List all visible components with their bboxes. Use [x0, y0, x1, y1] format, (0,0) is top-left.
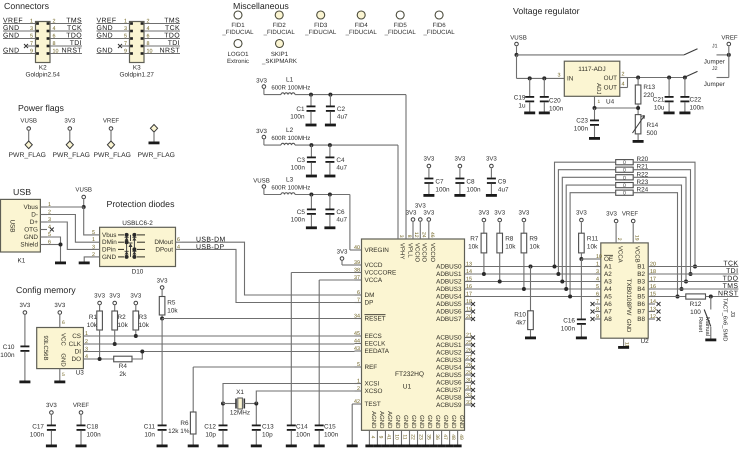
junction C6: [328, 193, 332, 197]
svg-text:2: 2: [622, 72, 625, 78]
ground bar K1: [55, 262, 66, 265]
svg-text:41: 41: [386, 434, 392, 440]
svg-text:3: 3: [558, 73, 561, 79]
svg-text:C13: C13: [262, 424, 274, 431]
wire OUT rail: [628, 77, 685, 79]
svg-text:FT232HQ: FT232HQ: [395, 371, 424, 378]
svg-text:FID4: FID4: [355, 22, 369, 29]
U1 right pin 14 ADBUS1: [465, 273, 472, 275]
wire VUSB top rail to J1: [517, 54, 685, 56]
wire joining OUT pins: [627, 78, 629, 88]
svg-text:VCCB: VCCB: [633, 246, 640, 263]
wire TEST pin to ground: [352, 403, 354, 405]
svg-text:TDI: TDI: [70, 40, 82, 47]
svg-text:13: 13: [466, 261, 472, 267]
U1 right pin 17 ADBUS4: [465, 296, 472, 298]
svg-text:Extronic: Extronic: [227, 58, 249, 65]
svg-text:TDO: TDO: [66, 32, 82, 39]
svg-text:RESET: RESET: [365, 316, 386, 323]
svg-text:U1: U1: [403, 384, 412, 391]
svg-text:4: 4: [85, 354, 88, 360]
fiducial FID6: [435, 11, 443, 19]
junction Shield/GND: [59, 243, 63, 247]
svg-text:100n: 100n: [291, 165, 306, 172]
svg-text:TDO: TDO: [723, 275, 739, 282]
fiducial FID2: [275, 11, 283, 19]
svg-text:ACBUS1: ACBUS1: [436, 342, 462, 349]
svg-text:31: 31: [466, 385, 472, 391]
svg-text:NRST: NRST: [62, 47, 83, 54]
PWR_FLAG diamond (gnd flag): [150, 125, 157, 133]
svg-text:_FIDUCIAL: _FIDUCIAL: [304, 29, 337, 36]
resistor R24 0R link: [616, 190, 634, 195]
svg-text:25: 25: [466, 340, 472, 346]
svg-text:5: 5: [124, 33, 127, 39]
svg-text:VUSB: VUSB: [20, 118, 37, 125]
svg-text:ADJ: ADJ: [595, 83, 602, 94]
U1 bottom pin 48 GND: [449, 430, 451, 444]
U1 right pin 33 ACBUS9: [465, 404, 472, 406]
junction R1-DO: [98, 357, 102, 361]
svg-text:100: 100: [690, 309, 701, 316]
junction C1: [309, 93, 313, 97]
U2 GND pin 11 to ground: [623, 338, 625, 346]
svg-text:0: 0: [623, 175, 626, 181]
U1 left pin 43 EEDATA: [355, 350, 362, 352]
svg-text:DMin: DMin: [102, 239, 117, 246]
wire K1 GND to ground: [47, 237, 61, 262]
capacitor C5 100n: [310, 195, 312, 209]
svg-text:TDI: TDI: [168, 40, 180, 47]
trimmer R14 500: [635, 115, 641, 134]
svg-text:VREGIN: VREGIN: [365, 247, 390, 254]
svg-text:FID6: FID6: [432, 22, 446, 29]
svg-text:17: 17: [466, 291, 472, 297]
svg-text:L1: L1: [286, 76, 294, 83]
jumper J1: [684, 49, 698, 55]
svg-text:TACT_6x6_SMD: TACT_6x6_SMD: [722, 298, 729, 341]
svg-text:100n: 100n: [30, 432, 45, 439]
capacitor C14 100n: [287, 425, 296, 427]
svg-text:A7: A7: [604, 309, 612, 316]
junction R9: [522, 287, 526, 291]
K2 pin 4 wire / net TCK: [50, 30, 82, 32]
wire bus ADBUS3/A4 row: [472, 288, 595, 290]
U1 right pin 13 ADBUS0: [465, 266, 472, 268]
svg-text:5: 5: [596, 284, 599, 290]
ferrite bead L1 600R 100MHz: [264, 94, 281, 96]
svg-text:_SKIPMARK: _SKIPMARK: [261, 58, 297, 65]
skip mark SKIP1: [276, 40, 284, 48]
svg-text:U2: U2: [641, 338, 650, 345]
wire VCCCORE to C14: [291, 272, 354, 274]
svg-text:TDO: TDO: [164, 32, 180, 39]
svg-text:35: 35: [426, 434, 432, 440]
svg-text:4u7: 4u7: [498, 187, 509, 194]
svg-text:3V3: 3V3: [54, 302, 65, 309]
svg-text:VCCA: VCCA: [365, 277, 383, 284]
svg-text:Vbus: Vbus: [24, 204, 38, 211]
svg-text:Config memory: Config memory: [16, 285, 76, 295]
junction R5-RESET: [160, 317, 164, 321]
svg-text:10: 10: [147, 48, 153, 54]
svg-text:B7: B7: [637, 309, 645, 316]
svg-text:C21: C21: [653, 97, 665, 104]
svg-text:3: 3: [85, 347, 88, 353]
svg-text:ACBUS5: ACBUS5: [436, 372, 462, 379]
wire R21 right to B-side net: [633, 170, 690, 274]
U1 bottom pin 9 AGND: [376, 430, 378, 444]
junction C19: [528, 76, 532, 80]
svg-text:500: 500: [647, 130, 658, 137]
svg-text:R1: R1: [89, 314, 98, 321]
svg-text:100n: 100n: [561, 326, 576, 333]
svg-text:Miscellaneous: Miscellaneous: [233, 1, 289, 11]
svg-text:LOGO1: LOGO1: [228, 51, 250, 58]
svg-text:3V3: 3V3: [423, 156, 434, 163]
svg-text:ADBUS4: ADBUS4: [436, 294, 462, 301]
svg-text:3V3: 3V3: [478, 210, 489, 217]
U1 top pin 8 VPLL: [405, 232, 407, 239]
svg-text:93LC56B: 93LC56B: [42, 335, 49, 360]
svg-text:C9: C9: [498, 179, 507, 186]
wire XCSO net: [256, 391, 354, 404]
svg-text:3V3: 3V3: [94, 293, 105, 300]
svg-text:1u: 1u: [518, 103, 526, 110]
svg-text:TXB0108PW: TXB0108PW: [625, 279, 632, 316]
svg-text:AGND: AGND: [370, 411, 377, 429]
svg-text:DO: DO: [71, 356, 81, 363]
capacitor C17 100n: [50, 415, 52, 425]
svg-text:10k: 10k: [505, 244, 516, 251]
wire L2 rail: [295, 144, 398, 146]
svg-text:VUSB: VUSB: [253, 178, 270, 185]
wire R24 left to A-side net: [570, 193, 616, 297]
svg-text:3V3: 3V3: [486, 156, 497, 163]
svg-text:DM: DM: [365, 292, 375, 299]
wire VUSB down to IN rail: [516, 55, 518, 79]
power symbol VREF: [109, 127, 113, 131]
junction NRST/J3: [709, 295, 713, 299]
svg-text:_FIDUCIAL: _FIDUCIAL: [263, 29, 296, 36]
svg-text:3V3: 3V3: [337, 249, 348, 256]
svg-text:600R 100MHz: 600R 100MHz: [271, 84, 310, 91]
svg-text:NRST: NRST: [718, 290, 739, 297]
svg-text:GND: GND: [59, 353, 66, 367]
connector K1 body: [1, 199, 41, 252]
svg-text:R8: R8: [505, 236, 514, 243]
junction ADJ/R13/R14: [636, 106, 640, 110]
wire REF net U1 to R6: [193, 366, 354, 368]
svg-text:K3: K3: [133, 65, 141, 72]
svg-text:TMS: TMS: [164, 17, 180, 24]
svg-text:XCSO: XCSO: [365, 388, 383, 395]
svg-text:GND: GND: [625, 319, 632, 333]
svg-text:B8: B8: [637, 316, 645, 323]
svg-text:6: 6: [177, 237, 180, 243]
svg-text:A2: A2: [604, 271, 612, 278]
svg-text:J3: J3: [729, 311, 736, 317]
capacitor C22 100n: [684, 78, 686, 97]
svg-text:VREF: VREF: [721, 35, 738, 42]
svg-text:4: 4: [53, 26, 56, 32]
U1 right pin 25 ACBUS1: [465, 344, 472, 346]
U1 left pin 6 DM: [355, 294, 362, 296]
resistor R21 0R link: [616, 167, 634, 172]
crystal X1 12MHz: [223, 403, 236, 405]
svg-text:29: 29: [466, 370, 472, 376]
svg-text:SKIP1: SKIP1: [271, 51, 289, 58]
svg-text:VCCCORE: VCCCORE: [365, 270, 397, 277]
svg-text:DPin: DPin: [102, 246, 116, 253]
svg-text:3V3: 3V3: [423, 210, 434, 217]
junction Vbus/VUSB: [82, 205, 86, 209]
svg-text:ACBUS8: ACBUS8: [436, 395, 462, 402]
capacitor C19 1u: [529, 78, 531, 96]
junction C5: [309, 193, 313, 197]
svg-text:4: 4: [177, 244, 180, 250]
svg-text:GND: GND: [458, 415, 465, 429]
wire IN rail: [517, 77, 565, 79]
svg-text:5: 5: [92, 230, 95, 236]
svg-text:3V3: 3V3: [518, 210, 529, 217]
wire K1 Shield to ground net: [47, 244, 61, 246]
svg-text:4u7: 4u7: [337, 114, 348, 121]
U1 left pin 40 VREGIN: [355, 249, 362, 251]
svg-text:TMS: TMS: [723, 283, 739, 290]
svg-text:0: 0: [623, 168, 626, 174]
svg-text:ACBUS9: ACBUS9: [436, 402, 462, 409]
U1 left pin 38 VCCCORE: [355, 272, 362, 274]
wire USB-DP from D10 to U1 DP: [182, 249, 355, 302]
K3 pin 2 wire / net TMS: [144, 23, 180, 25]
svg-text:Shield: Shield: [20, 242, 38, 249]
svg-text:GND: GND: [442, 415, 449, 429]
svg-text:GND: GND: [434, 415, 441, 429]
U1 right pin 26 ACBUS2: [465, 352, 472, 354]
svg-text:4: 4: [596, 277, 599, 283]
junction R2-CLK: [113, 342, 117, 346]
svg-text:10p: 10p: [262, 432, 273, 439]
svg-text:19: 19: [633, 235, 639, 241]
svg-text:GND: GND: [3, 47, 20, 54]
U1 top pin 46 VCCIO: [428, 232, 430, 239]
svg-text:C3: C3: [297, 157, 306, 164]
wire D+ K1 to D10 DPin: [47, 222, 94, 249]
svg-text:7: 7: [357, 297, 360, 303]
capacitor C12 10p: [219, 425, 228, 427]
svg-text:30: 30: [466, 377, 472, 383]
svg-text:5: 5: [357, 362, 360, 368]
junction R3-CS: [134, 334, 138, 338]
svg-text:12k 1%: 12k 1%: [168, 428, 190, 435]
svg-text:20: 20: [466, 314, 472, 320]
svg-text:18: 18: [466, 299, 472, 305]
svg-text:VCCD: VCCD: [365, 262, 383, 269]
svg-text:3V3: 3V3: [576, 210, 587, 217]
svg-text:Jumper: Jumper: [704, 81, 725, 88]
svg-text:8: 8: [53, 41, 56, 47]
svg-text:VREF: VREF: [622, 211, 639, 218]
svg-text:_FIDUCIAL: _FIDUCIAL: [221, 29, 254, 36]
svg-text:3V3: 3V3: [406, 210, 417, 217]
junction R8: [498, 280, 502, 284]
svg-text:Reset: Reset: [697, 317, 703, 333]
svg-text:100n: 100n: [324, 432, 339, 439]
svg-text:3V3: 3V3: [256, 78, 267, 85]
wire TMS net: [655, 288, 738, 290]
svg-text:3V3: 3V3: [415, 203, 426, 210]
svg-text:3V3: 3V3: [130, 293, 141, 300]
U1 right pin 27 ACBUS3: [465, 359, 472, 361]
svg-text:6: 6: [53, 33, 56, 39]
U1 left pin 45 EECS: [355, 335, 362, 337]
svg-text:A1: A1: [604, 264, 612, 271]
wire VREGIN into U1: [350, 249, 355, 251]
svg-text:14: 14: [466, 269, 472, 275]
svg-text:EEDATA: EEDATA: [365, 348, 390, 355]
svg-text:GND: GND: [410, 415, 417, 429]
U1 top pin 3 VPHY: [397, 232, 399, 239]
svg-text:7: 7: [124, 41, 127, 47]
svg-text:A8: A8: [604, 316, 612, 323]
svg-text:ACBUS3: ACBUS3: [436, 357, 462, 364]
svg-text:3V3: 3V3: [157, 278, 168, 285]
U1 left pin 2 XCSO: [355, 390, 362, 392]
svg-text:2k: 2k: [119, 371, 127, 378]
svg-text:C19: C19: [514, 95, 526, 102]
svg-text:VCCA: VCCA: [616, 246, 623, 263]
svg-text:ACBUS0: ACBUS0: [436, 335, 462, 342]
K2 pin 8 wire / net TDI: [50, 45, 82, 47]
svg-text:C15: C15: [324, 424, 336, 431]
wire J2 to VREF vertical: [717, 77, 729, 79]
svg-text:TDI: TDI: [726, 268, 738, 275]
wire Vbus down to D10 pin 5: [84, 207, 94, 235]
U1 bottom pin 11 GND: [400, 430, 402, 444]
wire RESET net to U1: [162, 318, 354, 320]
regulator U4 1117-ADJ body: [564, 61, 620, 96]
svg-text:4: 4: [622, 82, 625, 88]
resistor R10 4k7 pulldown on ADBUS0: [529, 265, 533, 269]
svg-text:C5: C5: [297, 209, 306, 216]
U1 right pin 19 ADBUS6: [465, 311, 472, 313]
K3 pin 10 wire / net NRST: [144, 53, 180, 55]
capacitor C3 100n: [310, 145, 312, 156]
svg-text:R13: R13: [643, 84, 655, 91]
PWR_FLAG diamond: [25, 141, 32, 149]
U1 bottom pin 49 GND: [457, 430, 459, 444]
resistor R23 0R link: [616, 183, 634, 188]
resistor R1 10k: [99, 305, 101, 311]
svg-text:D+: D+: [30, 219, 39, 226]
svg-text:10k: 10k: [529, 244, 540, 251]
connector K3 body: [130, 22, 145, 63]
capacitor C13 10p: [252, 425, 261, 427]
svg-text:C16: C16: [563, 318, 575, 325]
svg-text:TCK: TCK: [165, 25, 180, 32]
svg-text:ADBUS0: ADBUS0: [436, 264, 462, 271]
junction C22: [683, 76, 687, 80]
svg-text:TMS: TMS: [66, 17, 82, 24]
svg-text:VREF: VREF: [103, 118, 120, 125]
svg-text:R9: R9: [529, 236, 538, 243]
capacitor C18 100n: [80, 415, 82, 425]
power symbol VUSB: [27, 127, 31, 131]
svg-text:23: 23: [418, 434, 424, 440]
svg-text:3V3: 3V3: [256, 128, 267, 135]
svg-text:12: 12: [413, 232, 419, 238]
U1 left pin 1 XCSI: [355, 383, 362, 385]
U3 VCC pin wire: [59, 315, 61, 328]
svg-text:C4: C4: [336, 157, 345, 164]
junction R7: [482, 272, 486, 276]
svg-text:GND: GND: [102, 254, 117, 261]
svg-text:C7: C7: [435, 179, 444, 186]
svg-text:A3: A3: [604, 279, 612, 286]
resistor R20 0R link: [616, 160, 634, 165]
wire R24 right to B-side net: [633, 193, 677, 297]
svg-text:10k: 10k: [468, 244, 479, 251]
svg-text:ACBUS6: ACBUS6: [436, 380, 462, 387]
svg-text:100n: 100n: [0, 352, 15, 359]
junction R11: [579, 257, 583, 261]
capacitor C20 100n: [543, 78, 545, 96]
ground bar J3: [705, 339, 716, 342]
svg-text:Connectors: Connectors: [4, 1, 50, 11]
svg-text:FID5: FID5: [394, 22, 408, 29]
U1 right pin 16 ADBUS3: [465, 288, 472, 290]
svg-text:3V3: 3V3: [19, 302, 30, 309]
ferrite bead L2 600R 100MHz: [264, 144, 281, 146]
svg-text:12MHz: 12MHz: [230, 410, 250, 417]
svg-text:3: 3: [124, 26, 127, 32]
wire TDO net: [655, 281, 738, 283]
capacitor C21 10u: [668, 78, 670, 97]
wire D10 GND pin to ground: [84, 257, 93, 262]
svg-text:C2: C2: [337, 106, 346, 113]
svg-text:10k: 10k: [167, 308, 178, 315]
svg-text:3V3: 3V3: [494, 210, 505, 217]
wire R20 right to B-side net: [633, 162, 695, 266]
svg-text:3: 3: [398, 235, 404, 238]
svg-text:100n: 100n: [690, 105, 705, 112]
wire R20 left to A-side net: [555, 162, 616, 266]
wire U3 DO to R4: [90, 358, 114, 360]
wire bus ADBUS2/A3 row: [472, 281, 595, 283]
svg-text:8: 8: [406, 235, 412, 238]
svg-text:37: 37: [354, 275, 360, 281]
K2 pin 10 wire / net NRST: [50, 53, 82, 55]
svg-text:ACBUS7: ACBUS7: [436, 387, 462, 394]
svg-text:K2: K2: [39, 65, 47, 72]
capacitor C6 4u7: [329, 195, 331, 209]
svg-text:ACBUS2: ACBUS2: [436, 350, 462, 357]
svg-text:100n: 100n: [291, 217, 306, 224]
K2 pin 6 wire / net TDO: [50, 38, 82, 40]
U1 right pin 21 ACBUS0: [465, 337, 472, 339]
svg-text:2: 2: [85, 339, 88, 345]
junction C3: [309, 143, 313, 147]
svg-text:R5: R5: [167, 300, 176, 307]
power symbol 3V3: [68, 127, 72, 131]
svg-text:C20: C20: [549, 98, 561, 105]
svg-text:ADBUS7: ADBUS7: [436, 316, 462, 323]
svg-text:3: 3: [30, 26, 33, 32]
svg-text:_FIDUCIAL: _FIDUCIAL: [384, 29, 417, 36]
svg-text:C1: C1: [296, 106, 305, 113]
fiducial FID5: [396, 11, 404, 19]
